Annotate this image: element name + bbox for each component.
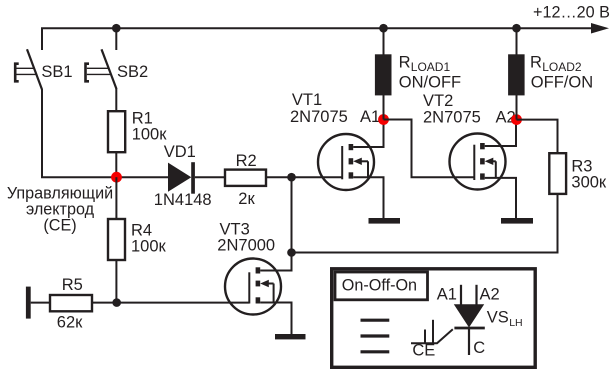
transistor VT2 drain contact bar	[480, 143, 485, 149]
thyristor VSLH triangle	[454, 304, 484, 327]
svg-text:R2: R2	[236, 152, 257, 170]
transistor VT2 substrate arrow	[485, 158, 494, 165]
switch SB1 moving contact	[27, 49, 42, 89]
svg-text:VT1: VT1	[292, 91, 322, 109]
svg-text:62к: 62к	[57, 314, 83, 332]
wire node down to VT3 drain node	[291, 177, 293, 252]
ground VT2 source	[501, 218, 533, 224]
svg-text:LOAD1: LOAD1	[411, 60, 451, 74]
svg-text:1N4148: 1N4148	[154, 191, 212, 209]
svg-text:ON/OFF: ON/OFF	[399, 74, 461, 92]
wire CE node to VD1 anode	[117, 176, 170, 178]
switch SB2 push-button actuator bracket	[86, 64, 90, 82]
legend inner box On-Off-On	[335, 272, 428, 300]
svg-text:A1: A1	[437, 285, 457, 303]
diode VD1 anode triangle	[168, 163, 191, 192]
transistor VT1 body circle	[318, 134, 374, 190]
svg-text:LH: LH	[509, 317, 522, 329]
transistor VT3 substrate arrow	[260, 280, 269, 287]
svg-text:2к: 2к	[238, 190, 255, 208]
switch SB1 top lead	[41, 28, 43, 50]
thyristor VSLH cathode lead C	[468, 328, 470, 355]
wire RLOAD1 to node A1	[383, 95, 385, 120]
svg-text:VS: VS	[487, 309, 509, 327]
thyristor gate tick 1	[424, 330, 426, 344]
wire terminal to R5	[31, 302, 51, 304]
transistor VT1 source lead	[353, 177, 383, 218]
power rail arrowhead	[591, 23, 609, 34]
svg-text:A1: A1	[360, 108, 380, 126]
resistor R1	[108, 111, 125, 152]
switch SB2 actuator link lines	[87, 67, 109, 69]
wire SB1 bottom to CE node	[42, 89, 113, 177]
wire A2 to R3 top	[517, 120, 558, 154]
resistor RLOAD2 (filled)	[508, 54, 524, 95]
svg-text:2N7000: 2N7000	[217, 236, 275, 254]
svg-text:On-Off-On: On-Off-On	[342, 277, 417, 295]
transistor VT2 gate electrode line	[473, 145, 475, 180]
diode VD1 cathode bar	[191, 162, 195, 194]
svg-text:2N7075: 2N7075	[423, 109, 481, 127]
node A2 (red)	[511, 114, 522, 125]
svg-text:R: R	[399, 54, 411, 72]
resistor R2	[225, 170, 266, 186]
resistor R5	[50, 295, 92, 311]
svg-text:C: C	[473, 339, 485, 357]
svg-text:(CE): (CE)	[43, 217, 76, 235]
resistor R4	[108, 219, 125, 260]
power rail top wire	[41, 27, 593, 29]
wire CE node to R4	[115, 177, 117, 220]
legend switch-position bars	[361, 319, 390, 322]
svg-text:SB1: SB1	[41, 63, 72, 81]
thyristor gate tick 2	[432, 320, 434, 343]
thyristor VSLH anode lead A1	[460, 285, 462, 305]
svg-text:VT2: VT2	[423, 92, 453, 110]
resistor R3	[549, 153, 566, 194]
transistor VT3 source contact bar	[256, 297, 261, 303]
svg-text:R5: R5	[62, 276, 83, 294]
wire rail to RLOAD1	[383, 28, 385, 55]
wire R1 to CE node	[115, 152, 117, 177]
svg-text:300к: 300к	[571, 174, 607, 192]
transistor VT2 body contact bar	[480, 158, 485, 164]
svg-text:100к: 100к	[131, 238, 167, 256]
wire rail to RLOAD2	[516, 28, 518, 55]
transistor VT2 source lead	[485, 178, 516, 219]
svg-text:VD1: VD1	[164, 143, 196, 161]
wire RLOAD2 to node A2	[516, 95, 518, 120]
transistor VT3 gate electrode line	[248, 272, 250, 303]
wire VT3 drain node to R3 bottom	[292, 193, 558, 253]
wire A1 to VT2 gate	[384, 120, 475, 178]
transistor VT1 source contact bar	[349, 172, 354, 178]
resistor RLOAD1 (filled)	[375, 54, 392, 95]
switch SB1 push-button actuator bracket	[15, 64, 19, 82]
svg-text:+12…20 В: +12…20 В	[533, 4, 610, 22]
transistor VT3 source lead	[260, 303, 291, 335]
transistor VT3 drain lead	[260, 254, 291, 271]
transistor VT1 gate electrode line	[341, 146, 343, 179]
transistor VT1 body contact bar	[349, 158, 354, 164]
svg-text:R: R	[530, 54, 542, 72]
transistor VT1 drain lead	[353, 120, 383, 147]
transistor VT1 drain contact bar	[349, 144, 354, 150]
transistor VT3 body circle	[225, 259, 281, 315]
junction RLOAD1 at power rail	[379, 24, 388, 33]
negative terminal bar	[26, 287, 31, 319]
ground VT1 source	[369, 218, 401, 224]
junction SB2 at power rail	[112, 24, 121, 33]
transistor VT1 substrate arrow	[353, 158, 362, 165]
junction node VT3 drain	[287, 248, 296, 257]
ground VT3 source	[275, 334, 306, 339]
switch SB2 top lead	[115, 28, 117, 50]
svg-text:A2: A2	[480, 285, 500, 303]
node A1 (red)	[378, 114, 389, 125]
transistor VT2 body circle	[450, 134, 506, 190]
junction RLOAD2 at power rail	[512, 24, 521, 33]
junction node at R2 output	[287, 173, 296, 182]
wire SB2 to R1	[115, 89, 117, 113]
svg-text:OFF/ON: OFF/ON	[531, 74, 593, 92]
wire R2 to VT1 gate	[266, 176, 342, 178]
wire VD1 to R2	[195, 176, 226, 178]
wire R4 to R5 node	[115, 260, 117, 303]
svg-text:100к: 100к	[132, 126, 168, 144]
svg-text:2N7075: 2N7075	[290, 108, 348, 126]
wire R5 to VT3 gate	[92, 302, 249, 304]
switch SB2 moving contact	[102, 49, 117, 89]
transistor VT3 body contact bar	[256, 281, 261, 287]
junction node R4/R5	[112, 298, 121, 307]
svg-text:SB2: SB2	[117, 63, 148, 81]
thyristor VSLH anode lead A2	[475, 285, 477, 305]
transistor VT2 drain lead	[485, 120, 516, 146]
legend outer box	[332, 269, 536, 368]
thyristor VSLH gate lead CE	[411, 329, 453, 343]
svg-text:CE: CE	[412, 342, 435, 360]
thyristor VSLH cathode bar	[454, 327, 484, 330]
transistor VT2 source contact bar	[480, 173, 485, 179]
svg-text:LOAD2: LOAD2	[542, 60, 582, 74]
switch SB1 actuator link lines	[17, 67, 35, 69]
node CE (red)	[111, 172, 122, 183]
transistor VT3 drain contact bar	[256, 267, 261, 273]
